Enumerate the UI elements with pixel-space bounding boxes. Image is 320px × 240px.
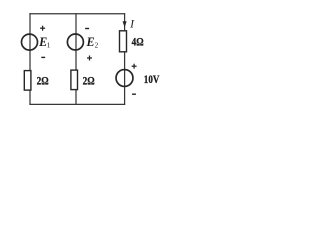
svg-text:4Ω: 4Ω: [132, 34, 144, 48]
voltage source E2: [67, 34, 83, 50]
wire left branch lower: [29, 90, 31, 105]
resistor 2ohm middle: [71, 70, 78, 90]
wire right branch upper: [124, 13, 126, 31]
minus sign E1: [41, 56, 45, 58]
plus sign E2: [87, 56, 92, 61]
voltage source 10V: [116, 70, 133, 87]
wire bottom rail: [29, 103, 125, 105]
svg-text:1: 1: [47, 42, 51, 50]
voltage source E1: [22, 34, 38, 50]
svg-text:E: E: [86, 35, 95, 49]
svg-text:I: I: [129, 17, 135, 30]
wire middle branch upper: [75, 13, 77, 70]
plus sign 10V: [132, 64, 137, 69]
resistor 2ohm left: [24, 71, 31, 91]
current arrow I: [123, 21, 127, 27]
plus sign E1: [40, 26, 45, 31]
resistor 4ohm: [120, 31, 127, 52]
minus sign 10V: [132, 93, 136, 95]
wire right branch lower: [124, 52, 126, 105]
svg-text:2Ω: 2Ω: [37, 73, 49, 87]
svg-text:2Ω: 2Ω: [83, 73, 95, 87]
wire left branch upper: [29, 13, 31, 70]
svg-text:10V: 10V: [144, 72, 160, 86]
minus sign E2: [85, 28, 89, 30]
wire middle branch lower: [75, 90, 77, 105]
label E1: [38, 35, 51, 50]
label E2: [86, 35, 99, 50]
svg-text:2: 2: [95, 42, 99, 50]
wire top rail: [29, 13, 125, 15]
